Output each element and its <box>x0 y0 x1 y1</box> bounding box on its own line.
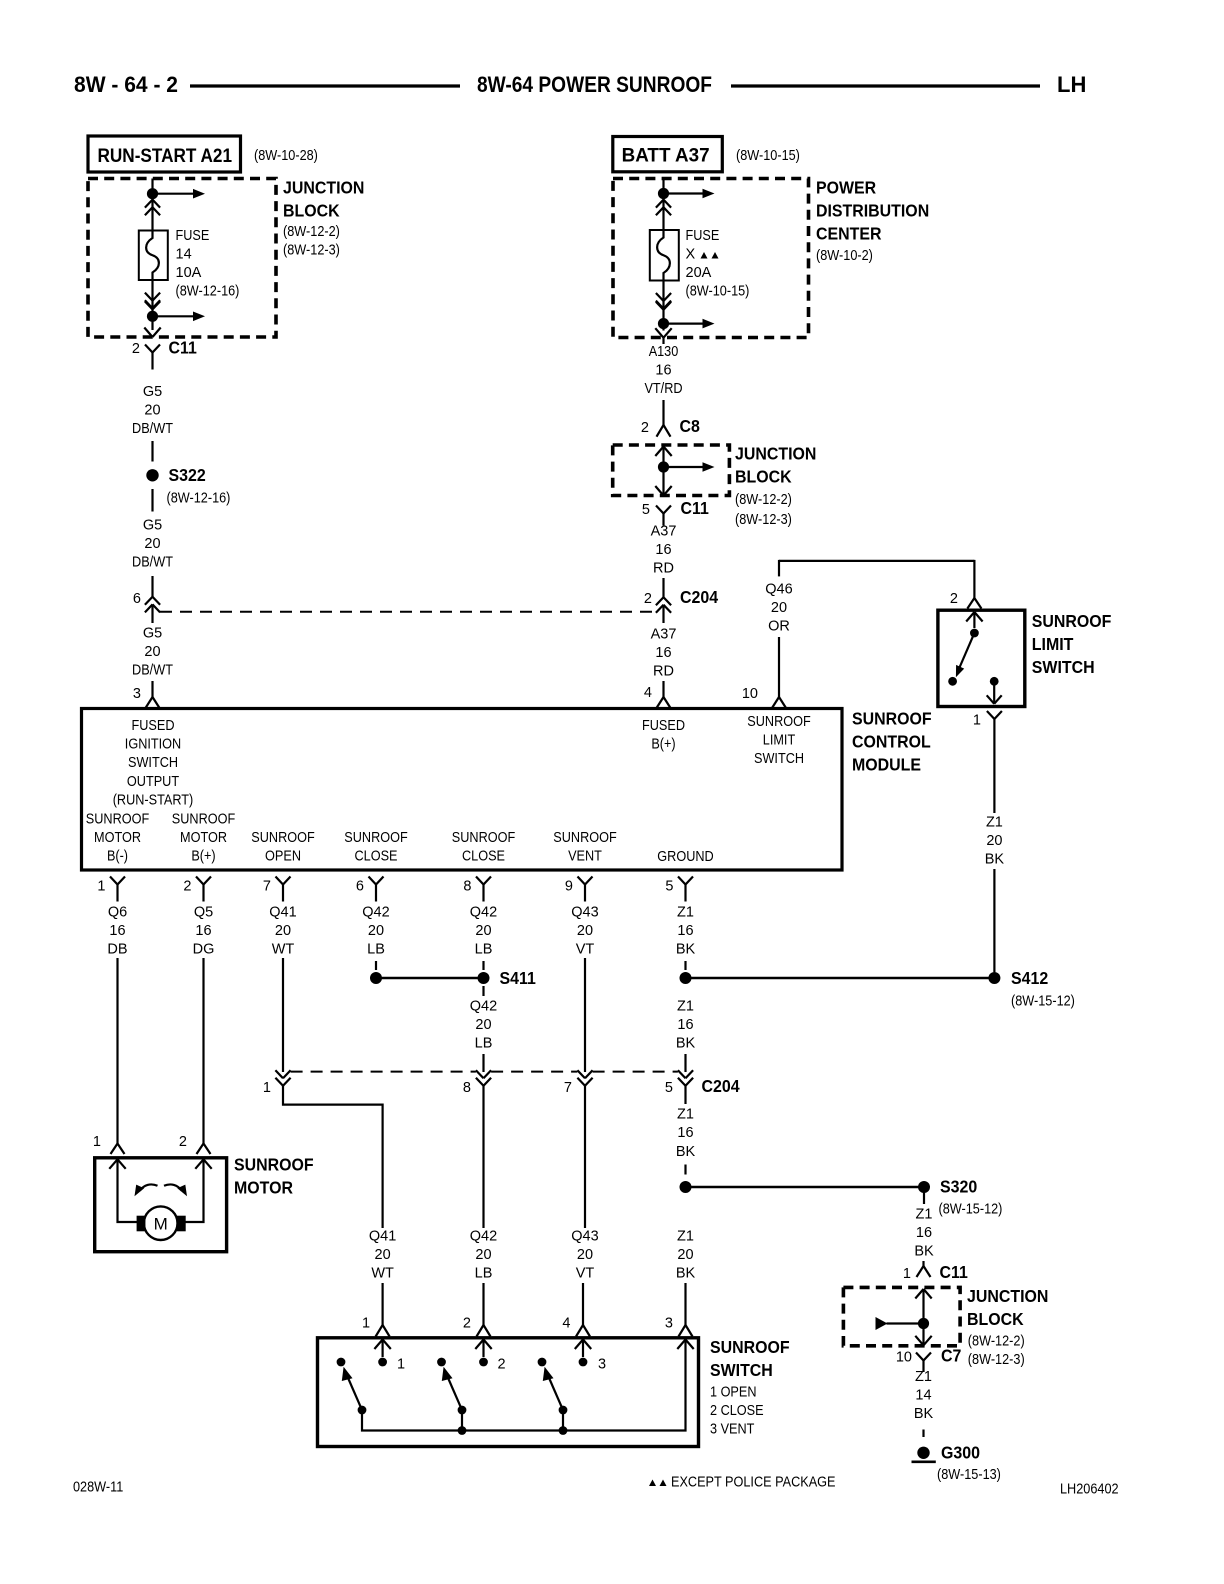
svg-text:WT: WT <box>371 1266 394 1282</box>
pin 3 of sunroof switch <box>665 1316 673 1332</box>
wire stub to S320 <box>684 1165 686 1175</box>
pin 1 of sunroof motor <box>93 1134 101 1150</box>
connector chevron motor pin1 <box>109 1159 125 1169</box>
svg-text:(8W-15-12): (8W-15-12) <box>939 1202 1003 1218</box>
feed arrow bottom left <box>153 312 206 322</box>
wire Z1 20 BK label right <box>985 814 1005 867</box>
svg-text:9: 9 <box>565 879 573 895</box>
connector switch pin1 <box>376 1320 390 1337</box>
svg-text:SUNROOF: SUNROOF <box>710 1337 790 1357</box>
wire G5 label a <box>132 384 173 437</box>
svg-text:FUSED: FUSED <box>132 718 175 734</box>
svg-text:5: 5 <box>642 502 650 518</box>
connector chevron switch pin3 <box>677 1340 693 1350</box>
svg-text:2: 2 <box>644 591 652 607</box>
wire Q46 lower segment <box>778 637 780 692</box>
pin 4 of control module <box>644 685 652 701</box>
svg-text:(8W-12-3): (8W-12-3) <box>283 243 340 259</box>
connector pin1 below module <box>110 877 125 902</box>
wire Q42 label lower <box>470 1229 497 1282</box>
wire G5 label b <box>132 518 173 571</box>
svg-text:BLOCK: BLOCK <box>967 1309 1024 1329</box>
wire switch pin1 contact <box>382 1340 384 1358</box>
svg-text:20: 20 <box>475 1247 491 1263</box>
svg-text:Z1: Z1 <box>916 1207 933 1223</box>
sunroof motor outline <box>95 1158 227 1252</box>
svg-text:G5: G5 <box>143 626 162 642</box>
wire segment below C204 left <box>151 604 153 623</box>
svg-text:16: 16 <box>677 1125 693 1141</box>
wire to switch pin1 <box>382 1283 384 1320</box>
svg-text:3: 3 <box>133 686 141 702</box>
connector chevrons below fuse 14 <box>145 293 160 310</box>
pin 4 of sunroof switch <box>562 1316 570 1332</box>
wire pin8 to C204 <box>482 1054 484 1072</box>
svg-text:RD: RD <box>653 561 674 577</box>
junction block J2 label <box>735 444 816 529</box>
splice S411 <box>370 968 536 988</box>
header rule left <box>190 84 460 87</box>
svg-text:16: 16 <box>655 542 671 558</box>
svg-text:B(+): B(+) <box>651 737 675 753</box>
module output label motor b+ <box>172 812 236 865</box>
svg-text:DB/WT: DB/WT <box>132 555 173 571</box>
switch contact 1a <box>337 1358 346 1367</box>
wire Z1 16 BK label right2 <box>914 1207 934 1260</box>
svg-text:20: 20 <box>475 1017 491 1033</box>
wire close circuit <box>482 1086 484 1228</box>
junction J2 <box>658 461 669 472</box>
svg-text:Q46: Q46 <box>765 582 792 598</box>
svg-text:JUNCTION: JUNCTION <box>735 444 816 464</box>
switch contact 1b <box>378 1358 387 1367</box>
svg-text:2: 2 <box>950 591 958 607</box>
svg-text:GROUND: GROUND <box>657 849 713 865</box>
svg-text:BK: BK <box>985 852 1005 868</box>
svg-text:CONTROL: CONTROL <box>852 732 931 752</box>
wire Q43 label lower <box>571 1229 598 1282</box>
power distribution center label <box>816 178 929 265</box>
svg-text:(8W-12-3): (8W-12-3) <box>735 512 792 528</box>
module input label fused b+ <box>642 718 685 753</box>
wire segment above C204 right <box>662 578 664 597</box>
svg-text:MODULE: MODULE <box>852 755 921 775</box>
svg-text:DB/WT: DB/WT <box>132 421 173 437</box>
svg-text:Q42: Q42 <box>470 1229 497 1245</box>
pin 1 of sunroof switch <box>362 1316 370 1332</box>
connector chevron switch pin4 <box>575 1340 591 1350</box>
switch blade 3 <box>543 1367 568 1415</box>
svg-text:SUNROOF: SUNROOF <box>86 812 150 828</box>
svg-text:MOTOR: MOTOR <box>94 830 141 846</box>
connector C11 left <box>145 338 197 370</box>
svg-text:VT: VT <box>576 942 595 958</box>
switch pivot stub 3 <box>559 1410 568 1435</box>
switch pivot stub 2 <box>458 1410 467 1435</box>
svg-text:10A: 10A <box>176 265 202 281</box>
switch contact 2a <box>437 1358 446 1367</box>
svg-text:BK: BK <box>676 1144 696 1160</box>
svg-text:16: 16 <box>655 363 671 379</box>
splice S320 <box>680 1177 1003 1218</box>
svg-text:SUNROOF: SUNROOF <box>234 1155 314 1175</box>
svg-text:16: 16 <box>109 923 125 939</box>
junction block J2 outline <box>613 445 730 496</box>
junction block J1 outline <box>88 179 276 338</box>
svg-text:M: M <box>154 1215 168 1234</box>
wire Z1 14 BK label <box>914 1369 934 1422</box>
connector pin2 below module <box>196 877 211 902</box>
svg-text:6: 6 <box>356 879 364 895</box>
module output label open <box>251 830 315 865</box>
svg-text:JUNCTION: JUNCTION <box>283 178 364 198</box>
wire stub to G300 <box>922 1430 924 1438</box>
junction block label <box>283 178 364 259</box>
svg-text:BK: BK <box>914 1406 934 1422</box>
junction block J3 outline <box>843 1287 960 1345</box>
wire Q46 to limit switch <box>779 560 974 594</box>
wire Z1 label a <box>676 905 696 958</box>
pin 2 of C204 <box>644 591 652 607</box>
pin 2 of control module bottom <box>183 879 191 895</box>
switch blade 2 <box>442 1367 467 1415</box>
svg-text:FUSE: FUSE <box>686 228 720 244</box>
fuse X label <box>686 228 750 300</box>
power distribution center outline <box>613 179 809 338</box>
svg-text:Q43: Q43 <box>571 1229 598 1245</box>
svg-text:G300: G300 <box>941 1443 980 1463</box>
svg-text:1: 1 <box>362 1316 370 1332</box>
pin 2 of sunroof motor <box>179 1134 187 1150</box>
svg-text:C11: C11 <box>681 498 710 518</box>
svg-text:FUSE: FUSE <box>176 228 210 244</box>
svg-text:LB: LB <box>367 942 385 958</box>
connector chevron inside limit switch <box>966 612 982 622</box>
svg-text:C8: C8 <box>680 416 701 436</box>
pin 2 of C8 <box>641 420 649 436</box>
svg-text:(8W-10-15): (8W-10-15) <box>736 148 800 164</box>
footnote except police package <box>649 1475 836 1491</box>
svg-text:C7: C7 <box>941 1346 961 1366</box>
svg-text:3: 3 <box>665 1316 673 1332</box>
connector C204 left half <box>145 597 160 613</box>
feed arrow PDC bottom <box>664 319 715 329</box>
svg-text:C11: C11 <box>169 338 198 358</box>
connector pin3 into module <box>146 681 160 708</box>
wire stub pin8 to S411 <box>482 961 484 970</box>
switch contact 3a <box>538 1358 547 1367</box>
pin 2 of limit switch <box>950 591 958 607</box>
svg-text:Q42: Q42 <box>470 999 497 1015</box>
wire to switch pin4 <box>582 1283 584 1320</box>
svg-text:1: 1 <box>93 1134 101 1150</box>
svg-text:Z1: Z1 <box>677 905 694 921</box>
wire stub below S411 <box>482 986 484 996</box>
svg-text:SWITCH: SWITCH <box>710 1360 773 1380</box>
header LH <box>1057 72 1086 97</box>
wire Z1 below S320 <box>923 1193 925 1205</box>
wire segment to S322 <box>151 441 153 462</box>
wire C204 lower dashed a <box>291 1071 476 1073</box>
sunroof switch outline <box>318 1338 699 1447</box>
wire run-start feed <box>151 179 153 231</box>
svg-text:(8W-12-16): (8W-12-16) <box>167 491 231 507</box>
svg-text:LB: LB <box>475 1036 493 1052</box>
svg-text:10: 10 <box>896 1350 912 1366</box>
connector pin6 below module <box>369 877 384 902</box>
wire exit arrow limit switch <box>987 695 1002 704</box>
motor rotation arrows <box>135 1184 188 1196</box>
pin 2 of C11 <box>132 341 140 357</box>
pin 10 of C7 <box>896 1350 912 1366</box>
connector switch pin2 <box>477 1320 491 1337</box>
svg-text:DB/WT: DB/WT <box>132 663 173 679</box>
svg-text:(8W-12-2): (8W-12-2) <box>283 224 340 240</box>
svg-text:1: 1 <box>973 713 981 729</box>
svg-text:DB: DB <box>107 942 127 958</box>
wire switch common bus <box>362 1340 686 1431</box>
svg-text:SUNROOF: SUNROOF <box>553 830 617 846</box>
pin 1 of control module bottom <box>97 879 105 895</box>
switch position label 3 <box>598 1357 606 1373</box>
junction J1 top <box>147 188 158 199</box>
connector chevrons below fuse X <box>656 293 671 310</box>
svg-text:20: 20 <box>577 1247 593 1263</box>
switch position label 2 <box>498 1357 506 1373</box>
junction block J3 label <box>967 1286 1048 1368</box>
motor M1 body <box>137 1206 186 1240</box>
svg-text:20A: 20A <box>686 265 712 281</box>
wire through J2 <box>662 447 664 496</box>
wire stub below PDC <box>662 338 664 344</box>
svg-text:BLOCK: BLOCK <box>283 201 340 221</box>
connector chevrons above fuse 14 <box>145 200 160 216</box>
svg-text:VT: VT <box>576 1266 595 1282</box>
svg-text:SUNROOF: SUNROOF <box>344 830 408 846</box>
svg-text:SUNROOF: SUNROOF <box>852 709 932 729</box>
fuse 14 10A <box>139 231 168 281</box>
svg-text:A37: A37 <box>651 627 677 643</box>
svg-text:S322: S322 <box>169 465 206 485</box>
wire C204 lower dashed b <box>491 1071 577 1073</box>
connector C11 lower <box>917 1261 969 1282</box>
svg-text:16: 16 <box>677 1017 693 1033</box>
wire jog open circuit <box>283 1086 383 1228</box>
svg-text:2: 2 <box>641 420 649 436</box>
svg-text:20: 20 <box>475 923 491 939</box>
connector pin5 below module <box>678 877 693 902</box>
wire vent circuit <box>584 1086 586 1228</box>
pin 10 of control module <box>742 686 758 702</box>
svg-text:BK: BK <box>914 1244 934 1260</box>
wire Q43 label <box>571 905 598 958</box>
pin 6 of control module bottom <box>356 879 364 895</box>
module input label run-start <box>113 718 194 808</box>
svg-text:7: 7 <box>564 1080 572 1096</box>
pin 1 of C11 lower <box>903 1266 911 1282</box>
sunroof motor label <box>234 1155 314 1198</box>
junction J3 <box>918 1318 929 1329</box>
svg-text:4: 4 <box>562 1316 570 1332</box>
pin 8 of C204 lower <box>463 1080 471 1096</box>
svg-text:LB: LB <box>475 942 493 958</box>
wire Z1 20 BK label left <box>676 1229 696 1282</box>
connector chevron motor pin2 <box>195 1159 211 1169</box>
svg-text:VT/RD: VT/RD <box>644 381 682 397</box>
wire Z1 below C204 <box>684 1086 686 1104</box>
wire Z1 to S412 <box>993 869 995 972</box>
svg-text:LH206402: LH206402 <box>1060 1482 1119 1498</box>
svg-text:6: 6 <box>133 591 141 607</box>
svg-text:20: 20 <box>577 923 593 939</box>
svg-text:20: 20 <box>375 1247 391 1263</box>
svg-text:14: 14 <box>915 1388 931 1404</box>
svg-text:8: 8 <box>463 879 471 895</box>
connector pin8 below module <box>476 877 491 902</box>
pin 6 of C204 <box>133 591 141 607</box>
svg-text:20: 20 <box>677 1247 693 1263</box>
svg-text:Z1: Z1 <box>986 814 1003 830</box>
svg-text:EXCEPT POLICE PACKAGE: EXCEPT POLICE PACKAGE <box>671 1475 836 1491</box>
connector chevron into J2 <box>655 447 671 457</box>
svg-text:VENT: VENT <box>568 849 602 865</box>
svg-text:14: 14 <box>176 247 192 263</box>
wire Z1 label b <box>676 999 696 1052</box>
svg-text:A130: A130 <box>649 344 679 360</box>
connector chevron switch pin1 <box>374 1340 390 1350</box>
wire segment below S322 <box>151 489 153 512</box>
svg-text:G5: G5 <box>143 518 162 534</box>
wire motor internal <box>118 1159 204 1222</box>
svg-text:OR: OR <box>768 619 790 635</box>
svg-text:028W-11: 028W-11 <box>73 1480 123 1496</box>
svg-text:20: 20 <box>986 833 1002 849</box>
connector C204 right half <box>656 587 718 613</box>
junction PDC bottom <box>658 318 669 329</box>
svg-text:SUNROOF: SUNROOF <box>747 714 811 730</box>
wire Q6 to motor <box>116 958 118 1144</box>
splice S322 <box>146 465 230 507</box>
connector chevrons above fuse X <box>656 200 671 216</box>
svg-text:Q42: Q42 <box>470 905 497 921</box>
wire to switch pin2 <box>482 1283 484 1320</box>
svg-text:WT: WT <box>272 942 295 958</box>
wire Q42 label a <box>362 905 389 958</box>
wire segment above C204 left <box>151 576 153 597</box>
connector pin1 motor <box>111 1144 125 1155</box>
wire exit arrow J2 <box>655 486 671 496</box>
svg-text:20: 20 <box>275 923 291 939</box>
svg-text:C204: C204 <box>680 587 718 607</box>
wire A130 label <box>644 344 682 397</box>
limit switch common contact <box>970 629 979 638</box>
connector pin1 limit switch <box>987 711 1002 734</box>
limit switch contact a <box>948 677 957 686</box>
svg-text:16: 16 <box>195 923 211 939</box>
svg-text:20: 20 <box>368 923 384 939</box>
svg-text:G5: G5 <box>143 384 162 400</box>
svg-text:C204: C204 <box>702 1076 740 1096</box>
connector pin2 motor <box>197 1144 211 1155</box>
svg-text:Q43: Q43 <box>571 905 598 921</box>
svg-text:(8W-10-2): (8W-10-2) <box>816 248 873 264</box>
connector C11 right <box>656 498 709 526</box>
wire limit switch common <box>973 612 975 628</box>
svg-text:8W-64 POWER SUNROOF: 8W-64 POWER SUNROOF <box>477 72 712 97</box>
switch blade 1 <box>342 1367 367 1415</box>
svg-text:MOTOR: MOTOR <box>180 830 227 846</box>
svg-text:CENTER: CENTER <box>816 224 882 244</box>
wire segment below C204 right <box>662 605 664 623</box>
pin 2 of sunroof switch <box>463 1316 471 1332</box>
svg-text:Q6: Q6 <box>108 905 127 921</box>
ground G300 <box>912 1443 1001 1484</box>
wire Z1 from limit switch <box>993 734 995 813</box>
wire exit arrow <box>144 328 160 338</box>
svg-text:4: 4 <box>644 685 652 701</box>
wire Q42 label b <box>470 905 497 958</box>
svg-text:CLOSE: CLOSE <box>355 849 398 865</box>
svg-text:7: 7 <box>263 879 271 895</box>
svg-text:X: X <box>686 247 696 263</box>
svg-text:SWITCH: SWITCH <box>754 751 804 767</box>
switch position label 1 <box>397 1357 405 1373</box>
svg-text:DISTRIBUTION: DISTRIBUTION <box>816 201 929 221</box>
svg-text:SUNROOF: SUNROOF <box>172 812 236 828</box>
svg-text:LIMIT: LIMIT <box>763 733 796 749</box>
svg-text:(8W-10-28): (8W-10-28) <box>254 148 318 164</box>
svg-text:2: 2 <box>183 879 191 895</box>
wire C204 lower dashed c <box>593 1071 678 1073</box>
splice S412 <box>680 968 1075 1010</box>
wire Q41 label <box>269 905 296 958</box>
junction J1 bottom <box>147 311 158 322</box>
svg-text:BK: BK <box>676 942 696 958</box>
svg-text:20: 20 <box>144 536 160 552</box>
wire exit arrow J3 <box>915 1336 931 1346</box>
sunroof limit switch outline <box>938 610 1025 706</box>
pin 7 of control module bottom <box>263 879 271 895</box>
module output label close a <box>344 830 408 865</box>
wire Z1 label c <box>676 1107 696 1160</box>
connector C204-8 <box>476 1070 491 1086</box>
node BATT A37 <box>613 137 723 172</box>
wire switch pin4 contact <box>582 1340 584 1358</box>
svg-text:1: 1 <box>903 1266 911 1282</box>
fuse 14 label <box>176 228 240 300</box>
connector pin7 below module <box>276 877 291 902</box>
module output label close b <box>452 830 516 865</box>
svg-text:2: 2 <box>463 1316 471 1332</box>
svg-text:Q42: Q42 <box>362 905 389 921</box>
feed arrow top left <box>153 189 206 199</box>
wire batt feed <box>662 179 664 231</box>
svg-text:DG: DG <box>193 942 215 958</box>
pin 5 of C11 <box>642 502 650 518</box>
wire A37 label b <box>651 627 677 680</box>
wire contact b stub <box>993 681 995 703</box>
connector chevron into J3 <box>915 1289 931 1299</box>
footer drawing number <box>1060 1482 1119 1498</box>
reference (8W-10-28) <box>254 148 318 164</box>
wire Q5 label <box>193 905 215 958</box>
connector C204-5 <box>678 1070 740 1096</box>
module output label vent <box>553 830 617 865</box>
connector C8 <box>657 400 701 437</box>
node RUN-START A21 <box>88 136 241 172</box>
wire pin7 to C204 <box>282 958 284 1072</box>
svg-text:20: 20 <box>144 644 160 660</box>
